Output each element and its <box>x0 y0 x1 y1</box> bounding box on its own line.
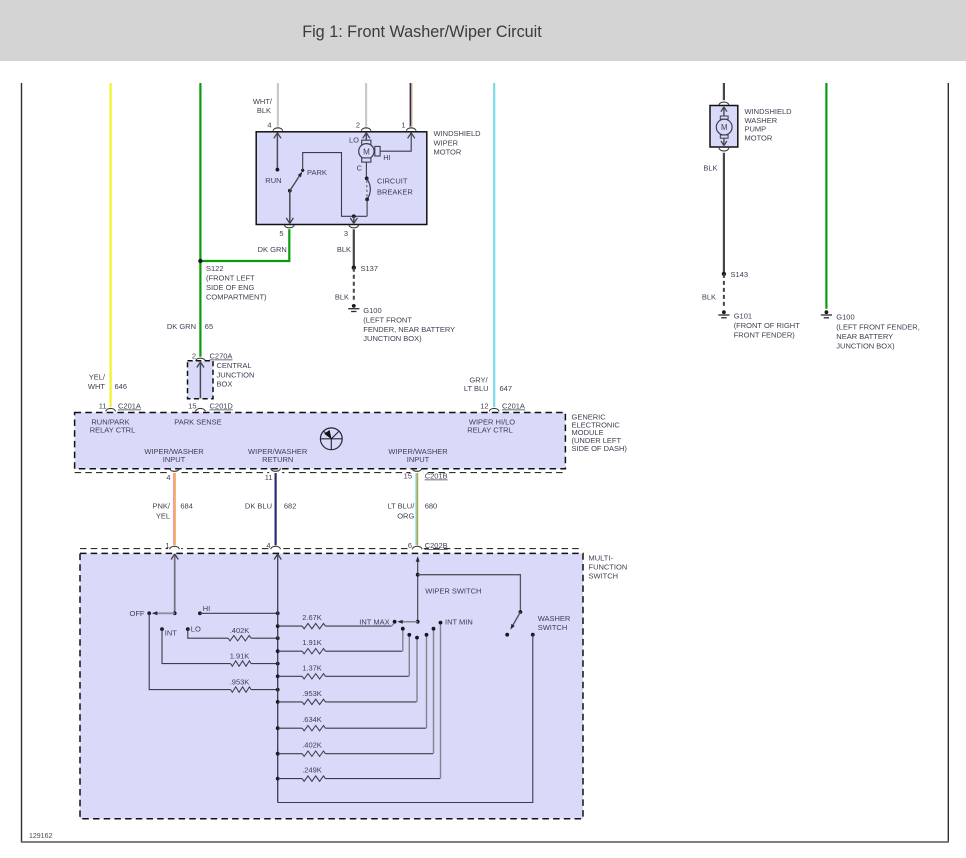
MFS pin 1 wire with arrow <box>171 554 178 615</box>
washer pump pin top <box>719 102 729 105</box>
arrow inside junction box <box>197 362 204 398</box>
svg-text:MOTOR: MOTOR <box>745 133 773 142</box>
svg-text:682: 682 <box>284 502 297 511</box>
svg-text:LO: LO <box>349 135 359 144</box>
washer switch blade <box>505 610 522 637</box>
label DK GRN 65 <box>167 322 213 331</box>
svg-text:INT: INT <box>165 628 178 637</box>
label WINDSHIELD WASHER PUMP MOTOR <box>745 107 793 142</box>
svg-text:YEL: YEL <box>156 512 170 521</box>
motor pin 5 <box>279 225 294 238</box>
INT wire to 1.91K <box>162 629 231 664</box>
washer switch feed wire <box>418 575 521 612</box>
wire BLK top to washer pump <box>723 83 725 100</box>
svg-text:.634K: .634K <box>302 715 322 724</box>
svg-text:(LEFT FRONT FENDER,: (LEFT FRONT FENDER, <box>836 322 919 331</box>
GEM timer symbol <box>320 428 342 450</box>
svg-text:BREAKER: BREAKER <box>377 188 413 197</box>
rotary contact dots INT MAX to INT MIN <box>359 617 472 639</box>
svg-text:(LEFT FRONT: (LEFT FRONT <box>363 315 412 324</box>
svg-text:WINDSHIELD: WINDSHIELD <box>745 107 793 116</box>
svg-text:2: 2 <box>356 121 360 130</box>
svg-text:647: 647 <box>500 384 513 393</box>
svg-text:G100: G100 <box>836 313 854 322</box>
GEM pin labels <box>90 417 516 464</box>
INT contact <box>160 627 177 637</box>
svg-text:JUNCTION: JUNCTION <box>217 370 255 379</box>
svg-text:SIDE OF DASH): SIDE OF DASH) <box>572 444 628 453</box>
svg-text:WIPER SWITCH: WIPER SWITCH <box>425 587 481 596</box>
svg-text:11: 11 <box>99 402 107 411</box>
wire BLK from pin 3 to S137 <box>353 229 355 267</box>
svg-text:C270A: C270A <box>210 352 233 361</box>
svg-text:15: 15 <box>188 402 196 411</box>
wire DK GRN from pin 5 to S122 <box>200 229 289 261</box>
svg-text:OFF: OFF <box>130 609 145 618</box>
svg-text:PARK SENSE: PARK SENSE <box>174 417 221 426</box>
svg-text:RELAY CTRL: RELAY CTRL <box>90 425 136 434</box>
svg-text:WASHER: WASHER <box>538 614 571 623</box>
svg-text:S137: S137 <box>361 264 379 273</box>
MFS pin 1 <box>165 541 181 551</box>
title bar <box>0 0 966 61</box>
wire BLK washer pump to S143 <box>723 153 725 274</box>
svg-text:PUMP: PUMP <box>745 125 767 134</box>
svg-text:RELAY CTRL: RELAY CTRL <box>467 425 513 434</box>
svg-text:(FRONT LEFT: (FRONT LEFT <box>206 274 255 283</box>
svg-text:LT BLU: LT BLU <box>464 384 489 393</box>
svg-text:1.91K: 1.91K <box>230 652 250 661</box>
svg-text:LT BLU/: LT BLU/ <box>387 502 415 511</box>
wire BLK dashed to G100 <box>353 268 355 303</box>
svg-text:BLK: BLK <box>702 293 716 302</box>
svg-text:BLK: BLK <box>257 106 271 115</box>
wire WHT to motor pin 2 <box>365 83 367 127</box>
wire breaker to bottom rail <box>366 199 368 216</box>
svg-text:M: M <box>721 123 728 132</box>
svg-text:646: 646 <box>115 382 128 391</box>
svg-text:(FRONT OF RIGHT: (FRONT OF RIGHT <box>734 321 801 330</box>
svg-text:4: 4 <box>266 541 270 550</box>
wire HI terminal to pin 1 <box>380 133 415 151</box>
svg-text:PNK/: PNK/ <box>152 502 170 511</box>
wiper off contact and blade <box>130 609 175 618</box>
svg-text:15: 15 <box>404 472 412 481</box>
ground G100 left <box>348 304 455 343</box>
resistor .402K on spine <box>276 629 434 757</box>
resistor .634K on spine <box>276 635 427 731</box>
connector C201D pin 15 <box>188 402 233 412</box>
resistor 1.37K on spine <box>276 635 409 679</box>
svg-text:M: M <box>363 147 370 156</box>
svg-text:1: 1 <box>401 121 405 130</box>
svg-text:COMPARTMENT): COMPARTMENT) <box>206 292 267 301</box>
label YEL/WHT 646 <box>88 373 127 392</box>
junction to pin 3 <box>350 214 357 223</box>
resistor 1.91K left <box>230 652 280 667</box>
HI contact and wire <box>198 604 280 615</box>
LO contact <box>186 624 201 633</box>
svg-text:684: 684 <box>180 502 193 511</box>
wire DK BLU 682 <box>275 473 277 545</box>
svg-text:HI: HI <box>383 153 391 162</box>
svg-text:JUNCTION BOX): JUNCTION BOX) <box>363 334 422 343</box>
MFS pin 4 <box>266 541 282 551</box>
resistor .953K on spine <box>276 638 417 705</box>
svg-text:JUNCTION BOX): JUNCTION BOX) <box>836 341 895 350</box>
svg-text:WHT/: WHT/ <box>253 97 273 106</box>
OFF wire to .953K <box>149 613 230 689</box>
motor M symbol <box>349 133 391 173</box>
resistor .249K on spine <box>276 623 441 782</box>
svg-text:FUNCTION: FUNCTION <box>589 563 628 572</box>
svg-text:.953K: .953K <box>230 678 250 687</box>
wire DK GRN vertical trunk to C270A <box>199 83 201 357</box>
splice S137 <box>352 264 378 273</box>
resistor .953K left <box>230 678 280 693</box>
svg-text:680: 680 <box>425 502 438 511</box>
windshield washer pump motor box <box>710 106 738 148</box>
svg-text:RUN: RUN <box>265 176 281 185</box>
svg-text:PARK: PARK <box>307 168 327 177</box>
ground G101 <box>718 310 800 339</box>
motor pin 2 <box>356 121 371 131</box>
resistor 2.67K on spine <box>276 613 394 629</box>
svg-text:WASHER: WASHER <box>745 116 778 125</box>
svg-text:SIDE OF ENG: SIDE OF ENG <box>206 283 255 292</box>
svg-text:BLK: BLK <box>337 245 351 254</box>
svg-text:YEL/: YEL/ <box>89 373 106 382</box>
svg-text:C201A: C201A <box>502 402 525 411</box>
RUN contact and wire to pin 4 <box>265 133 281 185</box>
svg-text:S122: S122 <box>206 264 224 273</box>
label LT BLU/ORG 680 <box>387 502 437 521</box>
svg-text:FENDER, NEAR BATTERY: FENDER, NEAR BATTERY <box>363 325 455 334</box>
wire LT BLU/ORG 680 <box>416 473 417 545</box>
wiper switch blade from pin 6 <box>397 556 419 623</box>
svg-text:3: 3 <box>344 229 348 238</box>
GEM bottom pin 11 <box>265 468 282 482</box>
svg-text:2: 2 <box>192 352 196 361</box>
svg-text:MOTOR: MOTOR <box>434 148 462 157</box>
resistor .402K left <box>228 626 280 641</box>
svg-text:C201A: C201A <box>118 402 141 411</box>
svg-text:BLK: BLK <box>703 164 717 173</box>
label GENERIC ELECTRONIC MODULE <box>572 412 628 453</box>
svg-text:2.67K: 2.67K <box>302 613 322 622</box>
wire YEL/WHT 646 to GEM pin 11 <box>109 83 111 407</box>
svg-text:Fig 1: Front Washer/Wiper Circ: Fig 1: Front Washer/Wiper Circuit <box>302 23 542 41</box>
wire GRY/LT BLU 647 to GEM pin 12 <box>493 83 495 407</box>
svg-text:4: 4 <box>166 473 170 482</box>
central junction box <box>188 361 214 399</box>
GEM bottom pin 4 <box>166 468 181 482</box>
motor pin 4 <box>267 121 282 131</box>
svg-text:WIPER: WIPER <box>434 138 459 147</box>
svg-text:C202B: C202B <box>425 541 448 550</box>
GEM bottom pin 15 C201B <box>404 468 448 480</box>
svg-text:.249K: .249K <box>302 766 322 775</box>
label PNK/YEL 684 <box>152 502 192 521</box>
wire BLK dashed to G101 <box>723 274 725 309</box>
svg-text:6: 6 <box>408 541 412 550</box>
label MULTI-FUNCTION SWITCH <box>589 554 628 581</box>
svg-text:5: 5 <box>279 229 283 238</box>
svg-text:INT MIN: INT MIN <box>445 617 473 626</box>
svg-text:S143: S143 <box>731 270 749 279</box>
svg-text:BOX: BOX <box>217 380 233 389</box>
svg-text:1.37K: 1.37K <box>302 663 322 672</box>
label WHT/BLK <box>253 97 273 115</box>
circuit breaker <box>365 177 414 202</box>
ground G100 right <box>821 310 920 350</box>
splice S143 <box>722 270 748 279</box>
splice S122 <box>198 259 267 302</box>
svg-text:C201D: C201D <box>210 402 234 411</box>
wire motor to circuit breaker <box>365 162 367 178</box>
svg-text:INPUT: INPUT <box>163 455 186 464</box>
wire WHT/BLK to motor pin 4 <box>277 83 279 127</box>
svg-text:GRY/: GRY/ <box>469 375 488 384</box>
svg-text:DK GRN: DK GRN <box>167 322 196 331</box>
generic electronic module box <box>75 413 566 469</box>
svg-text:G101: G101 <box>734 311 752 320</box>
svg-text:ORG: ORG <box>397 512 414 521</box>
svg-text:65: 65 <box>205 322 213 331</box>
washer switch contact to spine rail <box>278 633 535 803</box>
label WINDSHIELD WIPER MOTOR <box>434 129 482 157</box>
svg-text:HI: HI <box>203 604 211 613</box>
svg-text:129162: 129162 <box>29 833 52 840</box>
svg-text:BLK: BLK <box>335 293 349 302</box>
motor pin 1 <box>401 121 416 131</box>
MFS pin 4 spine with arrow <box>274 554 281 803</box>
park switch blade <box>288 168 327 193</box>
connector C201A pin 12 <box>480 402 525 412</box>
svg-text:DK GRN: DK GRN <box>258 245 287 254</box>
PARK contact wire to bottom rail <box>301 153 367 217</box>
svg-text:MULTI-: MULTI- <box>589 554 614 563</box>
wire DK BLU/ORG to motor pin 1 <box>410 83 411 127</box>
LO wire to .402K <box>188 629 228 638</box>
wire PNK/YEL 684 <box>174 473 175 545</box>
connector C201A pin 11 <box>99 402 141 412</box>
svg-text:C201B: C201B <box>425 472 448 481</box>
svg-text:.402K: .402K <box>302 741 322 750</box>
svg-text:CENTRAL: CENTRAL <box>217 361 252 370</box>
MFS pin 6 C202B <box>408 541 448 551</box>
washer pump motor symbol <box>716 107 732 146</box>
svg-text:4: 4 <box>267 121 271 130</box>
svg-text:1.91K: 1.91K <box>302 638 322 647</box>
svg-text:RETURN: RETURN <box>262 455 293 464</box>
windshield wiper motor box <box>256 132 427 225</box>
svg-text:DK BLU: DK BLU <box>245 502 272 511</box>
svg-text:WINDSHIELD: WINDSHIELD <box>434 129 482 138</box>
svg-text:WHT: WHT <box>88 382 105 391</box>
svg-text:FRONT FENDER): FRONT FENDER) <box>734 330 796 339</box>
label WASHER SWITCH <box>538 614 571 632</box>
wire pivot to pin 5 <box>286 191 293 224</box>
label DK BLU 682 <box>245 502 297 511</box>
svg-text:C: C <box>357 164 363 173</box>
MFS connector row dashed line <box>80 548 583 550</box>
svg-text:CIRCUIT: CIRCUIT <box>377 177 408 186</box>
svg-text:LO: LO <box>191 624 201 633</box>
svg-text:.402K: .402K <box>230 626 250 635</box>
svg-text:SWITCH: SWITCH <box>538 623 568 632</box>
GEM connector row dashed line <box>75 472 566 474</box>
wire DK GRN right to G100 <box>825 83 827 309</box>
svg-text:.953K: .953K <box>302 689 322 698</box>
svg-text:INT MAX: INT MAX <box>359 617 389 626</box>
svg-text:INPUT: INPUT <box>407 455 430 464</box>
connector C270A pin 2 <box>192 352 233 362</box>
svg-text:12: 12 <box>480 402 488 411</box>
svg-text:NEAR BATTERY: NEAR BATTERY <box>836 332 893 341</box>
label CENTRAL JUNCTION BOX <box>217 361 255 389</box>
svg-text:SWITCH: SWITCH <box>589 572 619 581</box>
svg-text:G100: G100 <box>363 306 381 315</box>
motor pin 3 <box>344 225 359 238</box>
svg-text:11: 11 <box>265 473 273 482</box>
washer pump pin bottom <box>719 148 729 151</box>
svg-text:1: 1 <box>165 541 169 550</box>
resistor 1.91K on spine <box>276 629 403 654</box>
label GRY/LT BLU 647 <box>464 375 512 393</box>
